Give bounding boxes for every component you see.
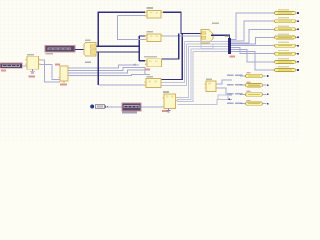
wires U2 right risers bbox=[69, 65, 151, 76]
net labels bottom right bbox=[227, 75, 243, 104]
wire node B to C vertical bbox=[138, 36, 140, 61]
resistor group bottom right bbox=[246, 72, 269, 105]
wire G1 pin1 to node bbox=[97, 45, 140, 47]
wire A lower pin riser to B bbox=[118, 16, 148, 40]
part A bbox=[145, 11, 163, 19]
label B gray bbox=[147, 31, 154, 33]
label E gray bbox=[147, 76, 154, 78]
resistor column right stubs bbox=[296, 13, 298, 70]
wire U1 pin1 to U2 riser1 bbox=[40, 60, 60, 82]
wire U4 out right to box bbox=[178, 99, 219, 104]
connector J3 (dark bar bottom) bbox=[122, 103, 141, 111]
wire G2 out to bus bar bbox=[211, 35, 230, 38]
label GND red bbox=[29, 75, 36, 77]
wire A out down to G2 bbox=[163, 12, 201, 33]
part F small gray bbox=[96, 105, 105, 109]
label U1 gray above bbox=[27, 54, 34, 56]
part D bbox=[205, 81, 217, 92]
label C gray bbox=[144, 56, 157, 58]
wire C left arrow bbox=[132, 64, 135, 67]
wire G1 pin2 to node bbox=[97, 51, 140, 53]
label G2 gray bbox=[212, 23, 219, 25]
resistor column right (8 resistors) bbox=[275, 9, 299, 71]
part E bbox=[145, 79, 162, 88]
wire F to bar3 bbox=[105, 106, 123, 108]
box below G2 bbox=[201, 44, 213, 49]
F pin ticks bbox=[105, 106, 106, 108]
gate G2 bbox=[201, 30, 213, 44]
wire U1 pin2 to U2 riser2 bbox=[40, 64, 60, 79]
label J1 red bbox=[1, 70, 6, 72]
fan wires to resistor column bbox=[231, 13, 275, 70]
connector J1 (dark bar left) bbox=[0, 63, 22, 68]
wire bar3 to U4 bbox=[141, 106, 164, 108]
label bus gray bbox=[225, 35, 230, 37]
wires D to right rows bbox=[217, 76, 246, 104]
bus bar vertical bbox=[228, 38, 231, 54]
connector J2 (dark bar middle) bbox=[45, 46, 75, 52]
junction dot bottom bbox=[90, 105, 94, 109]
wire C out up riser bbox=[162, 33, 179, 59]
label G1 gray bbox=[85, 39, 91, 41]
connector G1 bbox=[84, 43, 96, 57]
label C red bbox=[145, 68, 151, 70]
label J2 gray bbox=[46, 53, 54, 55]
wire E feed vertical bbox=[146, 33, 182, 79]
IC U2 bbox=[59, 66, 69, 83]
wire node to B bbox=[139, 35, 147, 37]
wire node to C bbox=[139, 60, 147, 62]
label bus red bbox=[230, 55, 236, 57]
ground below U4 bbox=[167, 109, 171, 112]
wire riser to E horizontal bbox=[98, 84, 146, 86]
wire node up loop to A bbox=[98, 12, 147, 46]
wire bar1 to U1 bbox=[22, 65, 27, 67]
part C bbox=[145, 59, 162, 67]
label U4 red bbox=[162, 110, 169, 112]
wire junction riser down bbox=[97, 52, 99, 85]
label D gray bbox=[206, 78, 212, 80]
wire J2 to G1 bbox=[75, 48, 85, 50]
light wires wrap from G2 area down-left bbox=[161, 42, 228, 102]
small box near D lower bbox=[218, 95, 232, 100]
ground below U1 bbox=[30, 69, 35, 73]
label J3 purple-gray bbox=[122, 112, 137, 114]
IC U4 bbox=[163, 94, 178, 109]
IC U1 bbox=[26, 56, 41, 69]
part B bbox=[145, 34, 163, 42]
label U2 red top bbox=[55, 64, 60, 66]
label below G1 bbox=[85, 61, 91, 63]
wire B out to G2 bbox=[163, 35, 201, 37]
label A gray bbox=[147, 7, 154, 9]
label U4 gray bbox=[163, 91, 169, 93]
wire A lower pin horizontal bbox=[118, 15, 146, 17]
label U2 red bottom bbox=[60, 84, 67, 86]
